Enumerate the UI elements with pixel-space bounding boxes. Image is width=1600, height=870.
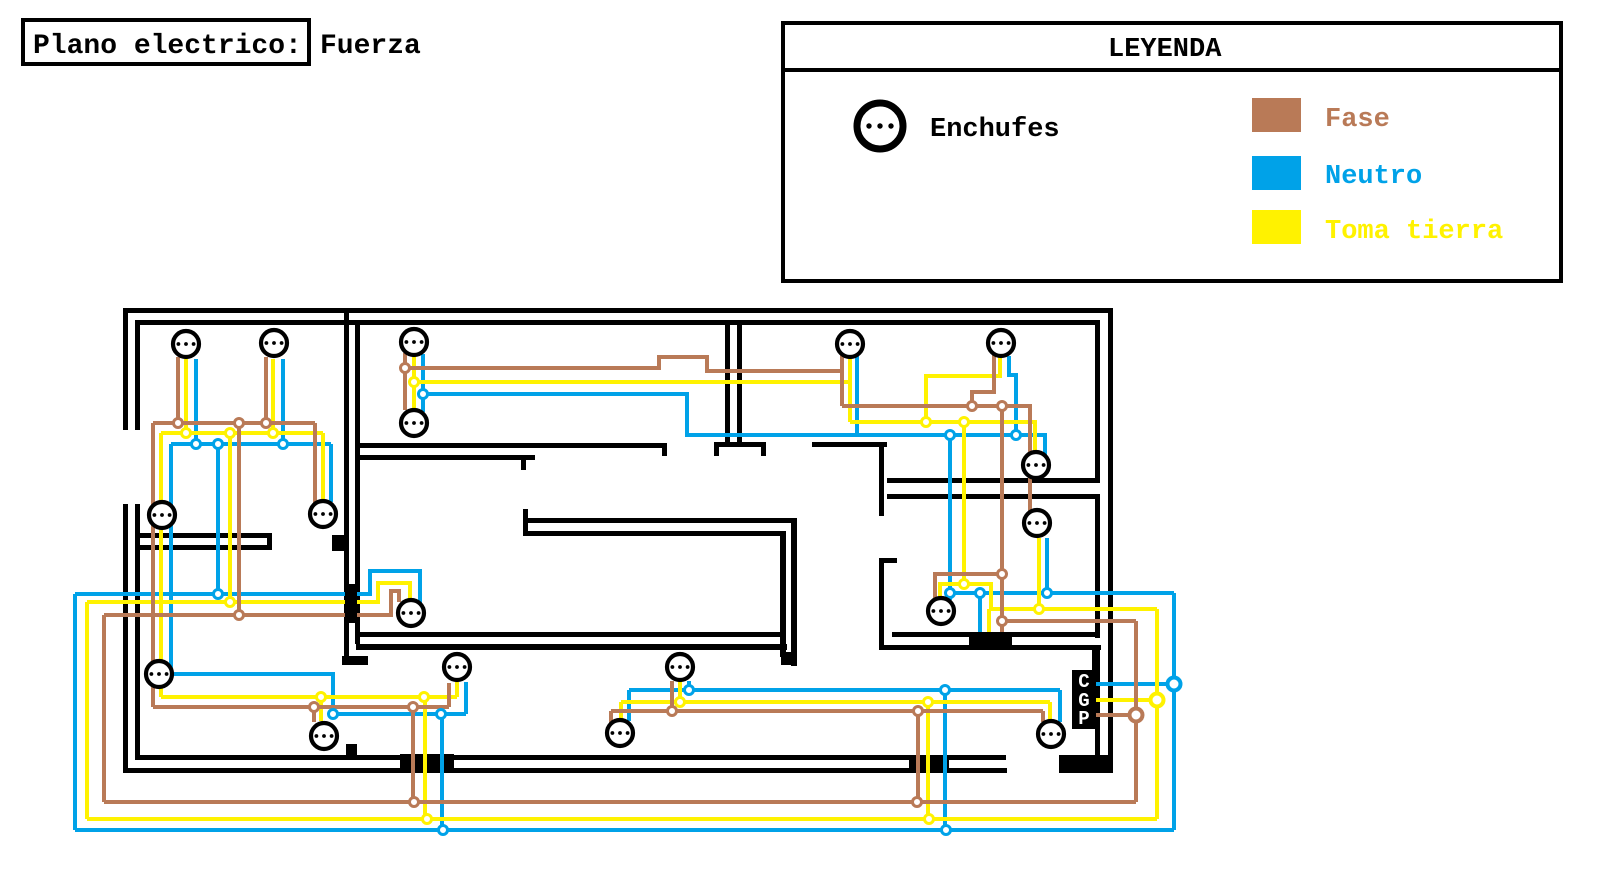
node fase 239,615 xyxy=(235,611,244,620)
wire tierra hall right xyxy=(621,700,1050,704)
wire fase hall right xyxy=(611,709,1043,713)
wire tierra loop right xyxy=(1155,609,1159,819)
node fase 405,368 xyxy=(401,364,410,373)
node fase 1002,574 xyxy=(998,570,1007,579)
junction box B1 xyxy=(345,584,357,623)
wire fase hall drop xyxy=(411,707,415,802)
wire neutro room3 outlet1 stub xyxy=(855,353,859,435)
wire tierra hall outlet5 stub xyxy=(1048,702,1052,719)
wall outer left upper xyxy=(123,308,128,430)
wall rightmid wall vert upper xyxy=(879,447,884,516)
node neutro 441,714 xyxy=(437,710,446,719)
wall outer top xyxy=(123,308,1113,313)
wire fase rightmid outlet stub xyxy=(935,574,1002,598)
wire fase outlet2 stub xyxy=(264,357,268,423)
wall inner top xyxy=(135,320,1100,325)
node fase 972,406 xyxy=(968,402,977,411)
wire fase hall outlet4 stub xyxy=(609,711,613,723)
wall T wall cap xyxy=(714,442,766,447)
wire neutro outlet2 stub xyxy=(281,359,285,444)
outlet enchufe 414,423 xyxy=(401,410,427,436)
wire neutro hall right xyxy=(629,688,1060,692)
svg-text:Enchufes: Enchufes xyxy=(930,115,1060,145)
wire neutro room2 vert xyxy=(421,354,425,412)
node neutro 333,714 xyxy=(329,710,338,719)
wall midleft wall cap xyxy=(267,533,272,550)
node fase 266,423 xyxy=(262,419,271,428)
wall peninsula foot xyxy=(781,652,797,665)
wall midleft wall line2 xyxy=(135,545,272,550)
wall peninsula top outer xyxy=(528,518,797,523)
wall T wall cap stub R xyxy=(761,447,766,456)
node neutro 218,594 xyxy=(214,590,223,599)
svg-text:P: P xyxy=(1078,708,1089,730)
wire neutro room3 outlet2 jog xyxy=(1009,356,1016,435)
node neutro 283,444 xyxy=(279,440,288,449)
node fase 1002,406 xyxy=(998,402,1007,411)
wall corridor bottom line1 xyxy=(356,632,781,637)
outlet enchufe 411,613 xyxy=(398,600,424,626)
wall T wall right line xyxy=(737,320,742,442)
wire tierra hall outlet stub2 xyxy=(319,697,323,721)
wire fase hall drop right xyxy=(916,711,920,802)
wire neutro rightmid vert xyxy=(948,435,952,600)
wire neutro room1 drop left xyxy=(169,444,173,668)
node fase 414,802 xyxy=(410,798,419,807)
node tierra 680,702 xyxy=(676,698,685,707)
wall rightmid bottom line2 xyxy=(879,645,1101,650)
node tierra 964,422 xyxy=(960,418,969,427)
legend neutro swatch xyxy=(1252,156,1301,190)
wall room2 bottom upper xyxy=(360,443,667,448)
wire tierra room3 row xyxy=(850,422,1035,451)
wall room3 bottom right line2 xyxy=(887,494,1100,499)
outlet enchufe 620,733 xyxy=(607,720,633,746)
node neutro 689,690 xyxy=(685,686,694,695)
node tierra 230,433 xyxy=(226,429,235,438)
wall outer bottom xyxy=(123,768,1007,773)
node tierra 1157,700 xyxy=(1151,694,1164,707)
node fase 178,423 xyxy=(174,419,183,428)
outlet enchufe 323,514 xyxy=(310,501,336,527)
wire fase hall outlet5 stub xyxy=(1041,711,1045,722)
wire fase loop left xyxy=(102,615,106,802)
node tierra 427,819 xyxy=(423,815,432,824)
svg-text:Neutro: Neutro xyxy=(1325,162,1422,192)
wall peninsula left stub xyxy=(523,509,528,536)
wire tierra outlet2 stub xyxy=(271,359,275,433)
wire neutro hall left xyxy=(173,674,466,714)
svg-text:Fase: Fase xyxy=(1325,105,1390,135)
wire neutro hall outlet stub xyxy=(464,682,468,714)
wall inner left upper xyxy=(135,320,140,430)
wall wall A bump xyxy=(332,535,344,551)
wire fase room1 mid drop xyxy=(237,423,241,615)
outlet enchufe 159,674 xyxy=(146,661,172,687)
node fase 1136,715 xyxy=(1130,709,1143,722)
node fase 314,707 xyxy=(310,703,319,712)
node neutro 1047,593 xyxy=(1043,589,1052,598)
wire tierra outlet1 stub xyxy=(184,359,188,433)
node neutro 950,435 xyxy=(946,431,955,440)
legend toma tierra swatch xyxy=(1252,210,1301,244)
wire neutro hall drop xyxy=(440,714,444,830)
wire neutro rightmid long xyxy=(950,591,1174,595)
wire neutro hall drop right xyxy=(943,690,947,830)
wall room3 bottom left xyxy=(812,442,887,447)
legend box xyxy=(783,23,1561,281)
junction box B3 xyxy=(400,754,454,768)
wall inner left lower xyxy=(135,504,140,760)
wire fase outlet1 stub xyxy=(176,357,180,423)
wire fase cgp stub xyxy=(1094,713,1136,717)
wire neutro rightmid outlet drop xyxy=(1045,538,1049,593)
svg-text:LEYENDA: LEYENDA xyxy=(1108,35,1222,65)
node tierra 926,422 xyxy=(922,418,931,427)
wire neutro room1 row xyxy=(171,442,331,446)
node neutro 443,830 xyxy=(439,826,448,835)
wall peninsula top inner xyxy=(528,531,786,536)
wire tierra room1 drop left xyxy=(159,433,163,697)
wall wall B xyxy=(355,320,360,644)
node neutro 218,444 xyxy=(214,440,223,449)
node tierra 928,702 xyxy=(924,698,933,707)
outlet enchufe 850,344 xyxy=(837,331,863,357)
outlet enchufe 457,667 xyxy=(444,654,470,680)
wire neutro loop left xyxy=(73,594,77,830)
wire fase room1 right drop xyxy=(313,423,317,505)
wall peninsula right inner xyxy=(780,536,786,657)
node tierra 273,433 xyxy=(269,429,278,438)
junction box B4 xyxy=(909,756,949,770)
wire fase hall outlet stub xyxy=(447,683,451,707)
outlet enchufe 680,667 xyxy=(667,654,693,680)
node tierra 414,382 xyxy=(410,378,419,387)
wire neutro hall outlet3 stub xyxy=(687,681,691,690)
wire neutro cgp stub xyxy=(1094,682,1174,686)
wire neutro outlet1 stub xyxy=(194,359,198,444)
node tierra 1039,609 xyxy=(1035,605,1044,614)
node neutro 423,394 xyxy=(419,390,428,399)
wall inner right lower xyxy=(1095,494,1100,638)
wall rightmid wall stub xyxy=(879,558,897,563)
wire fase loop bottom xyxy=(104,800,1136,804)
wire fase room3 row xyxy=(842,406,1030,514)
title box xyxy=(23,20,309,64)
outlet enchufe 1051,734 xyxy=(1038,721,1064,747)
node fase 918,711 xyxy=(914,707,923,716)
wire tierra rightmid outlet stub xyxy=(940,584,964,598)
wall T wall cap stub L xyxy=(714,447,719,456)
svg-text:Fuerza: Fuerza xyxy=(320,31,421,62)
wire fase room1 drop left xyxy=(151,423,155,707)
wall midleft wall line1 xyxy=(135,533,272,538)
wire fase room3 vert1 xyxy=(840,352,844,406)
wall rightmid bottom corner xyxy=(1092,650,1098,670)
wire tierra hall outlet3 stub xyxy=(678,681,682,702)
wire fase hall outlet stub2 xyxy=(312,707,316,722)
wall room2 bottom upper cap xyxy=(662,448,667,456)
wire tierra room3 vert1 xyxy=(848,358,852,422)
junction box B2 xyxy=(969,632,1012,648)
wire tierra loop bottom xyxy=(87,817,1157,821)
wall wall A foot xyxy=(342,656,368,665)
wire tierra into box2 xyxy=(987,609,991,634)
wall T wall left line xyxy=(725,320,730,442)
outlet enchufe 414,342 xyxy=(401,329,427,355)
wall room2 bottom lower jamb xyxy=(521,460,526,470)
wire tierra box1 to outlet xyxy=(357,583,410,602)
outlet enchufe 324,736 xyxy=(311,723,337,749)
outlet enchufe 941,611 xyxy=(928,598,954,624)
wall inner right upper xyxy=(1095,325,1100,478)
node tierra 929,819 xyxy=(925,815,934,824)
wall wall A xyxy=(344,313,349,656)
node fase 239,423 xyxy=(235,419,244,428)
wire tierra rightmid outlet drop xyxy=(1037,538,1041,609)
wire fase room2 to room3 xyxy=(405,357,842,371)
node tierra 964,584 xyxy=(960,580,969,589)
wire tierra room3 outlet2 jog xyxy=(926,357,1000,422)
wall rightmid bottom line1 xyxy=(892,632,1096,637)
wall rightmid wall vert lower xyxy=(879,558,884,647)
CGP box xyxy=(1072,670,1096,729)
node neutro 1016,435 xyxy=(1012,431,1021,440)
outlet enchufe 1037,523 xyxy=(1024,510,1050,536)
legend enchufe symbol xyxy=(857,103,903,149)
wall room3 bottom right line1 xyxy=(887,478,1100,483)
legend fase swatch xyxy=(1252,98,1301,132)
wire tierra room1 right drop xyxy=(321,433,325,501)
wire neutro box1 to outlet xyxy=(357,571,420,603)
node neutro 946,830 xyxy=(942,826,951,835)
wall peninsula right outer xyxy=(791,523,797,666)
outlet enchufe 186,344 xyxy=(173,331,199,357)
wire fase room2 vert xyxy=(403,353,407,410)
node fase 1002,621 xyxy=(998,617,1007,626)
wire neutro room2 to room3 xyxy=(423,394,1045,459)
wire fase rightmid to loop xyxy=(1002,619,1136,623)
wall inner bottom xyxy=(135,755,1006,760)
wire neutro room1 right drop xyxy=(329,444,333,502)
wire tierra rightmid jog xyxy=(964,584,1157,609)
wire neutro feed left xyxy=(75,592,345,596)
wire neutro into box2 xyxy=(978,593,982,640)
node neutro 1174,684 xyxy=(1168,678,1181,691)
wall outer left lower xyxy=(123,504,128,773)
wire tierra hall outlet4 stub xyxy=(619,702,623,719)
outlet enchufe 162,515 xyxy=(149,502,175,528)
wall inner bottom stub up xyxy=(346,744,357,755)
node fase 672,711 xyxy=(668,707,677,716)
wire fase room3 drop xyxy=(1000,406,1004,634)
wire fase box1 to outlet xyxy=(357,591,399,615)
wire fase feed left xyxy=(104,613,345,617)
wire tierra cgp stub xyxy=(1094,698,1157,702)
wire fase loop right xyxy=(1134,621,1138,802)
wire neutro room1 mid drop xyxy=(216,444,220,594)
outlet enchufe 274,343 xyxy=(261,330,287,356)
node neutro 950,593 xyxy=(946,589,955,598)
wall outer bottom right corner xyxy=(1059,755,1113,773)
wall outer right xyxy=(1108,308,1113,773)
wall room2 bottom lower xyxy=(360,455,535,460)
wire neutro hall outlet5 stub xyxy=(1058,690,1062,722)
node neutro 980,593 xyxy=(976,589,985,598)
wire tierra hall drop right xyxy=(926,702,930,819)
node neutro 196,444 xyxy=(192,440,201,449)
wire tierra hall drop xyxy=(423,697,427,819)
node tierra 321,697 xyxy=(317,693,326,702)
wire tierra room3 drop xyxy=(962,422,966,584)
outlet enchufe 1001,343 xyxy=(988,330,1014,356)
wire tierra room2 vert xyxy=(412,356,416,409)
wire fase room3 outlet2 jog xyxy=(972,355,994,406)
wire tierra hall bottom xyxy=(161,695,457,699)
wire fase room1 row xyxy=(153,421,315,425)
wire neutro hall outlet4 stub xyxy=(627,690,631,721)
wire tierra room1 row xyxy=(161,431,323,435)
wire tierra loop left xyxy=(85,602,89,819)
wire fase hall outlet3 stub xyxy=(670,681,674,711)
node neutro 945,690 xyxy=(941,686,950,695)
wire tierra hall outlet stub xyxy=(455,682,459,697)
node tierra 424,697 xyxy=(420,693,429,702)
wire neutro loop bottom xyxy=(75,828,1174,832)
wire tierra room1 mid drop xyxy=(228,433,232,602)
node tierra 186,433 xyxy=(182,429,191,438)
svg-text:Toma tierra: Toma tierra xyxy=(1325,217,1503,247)
node fase 917,802 xyxy=(913,798,922,807)
wire tierra feed left xyxy=(87,600,345,604)
outlet enchufe 1036,465 xyxy=(1023,452,1049,478)
wall corridor bottom line2 xyxy=(356,644,787,650)
node fase 413,707 xyxy=(409,703,418,712)
wire tierra room2 to room3 xyxy=(414,380,850,384)
wire fase hall bottom xyxy=(153,705,449,709)
node tierra 230,602 xyxy=(226,598,235,607)
wall inner right lower2 xyxy=(1095,650,1100,757)
wire neutro loop right xyxy=(1172,593,1176,830)
svg-text:Plano electrico:: Plano electrico: xyxy=(33,31,302,62)
